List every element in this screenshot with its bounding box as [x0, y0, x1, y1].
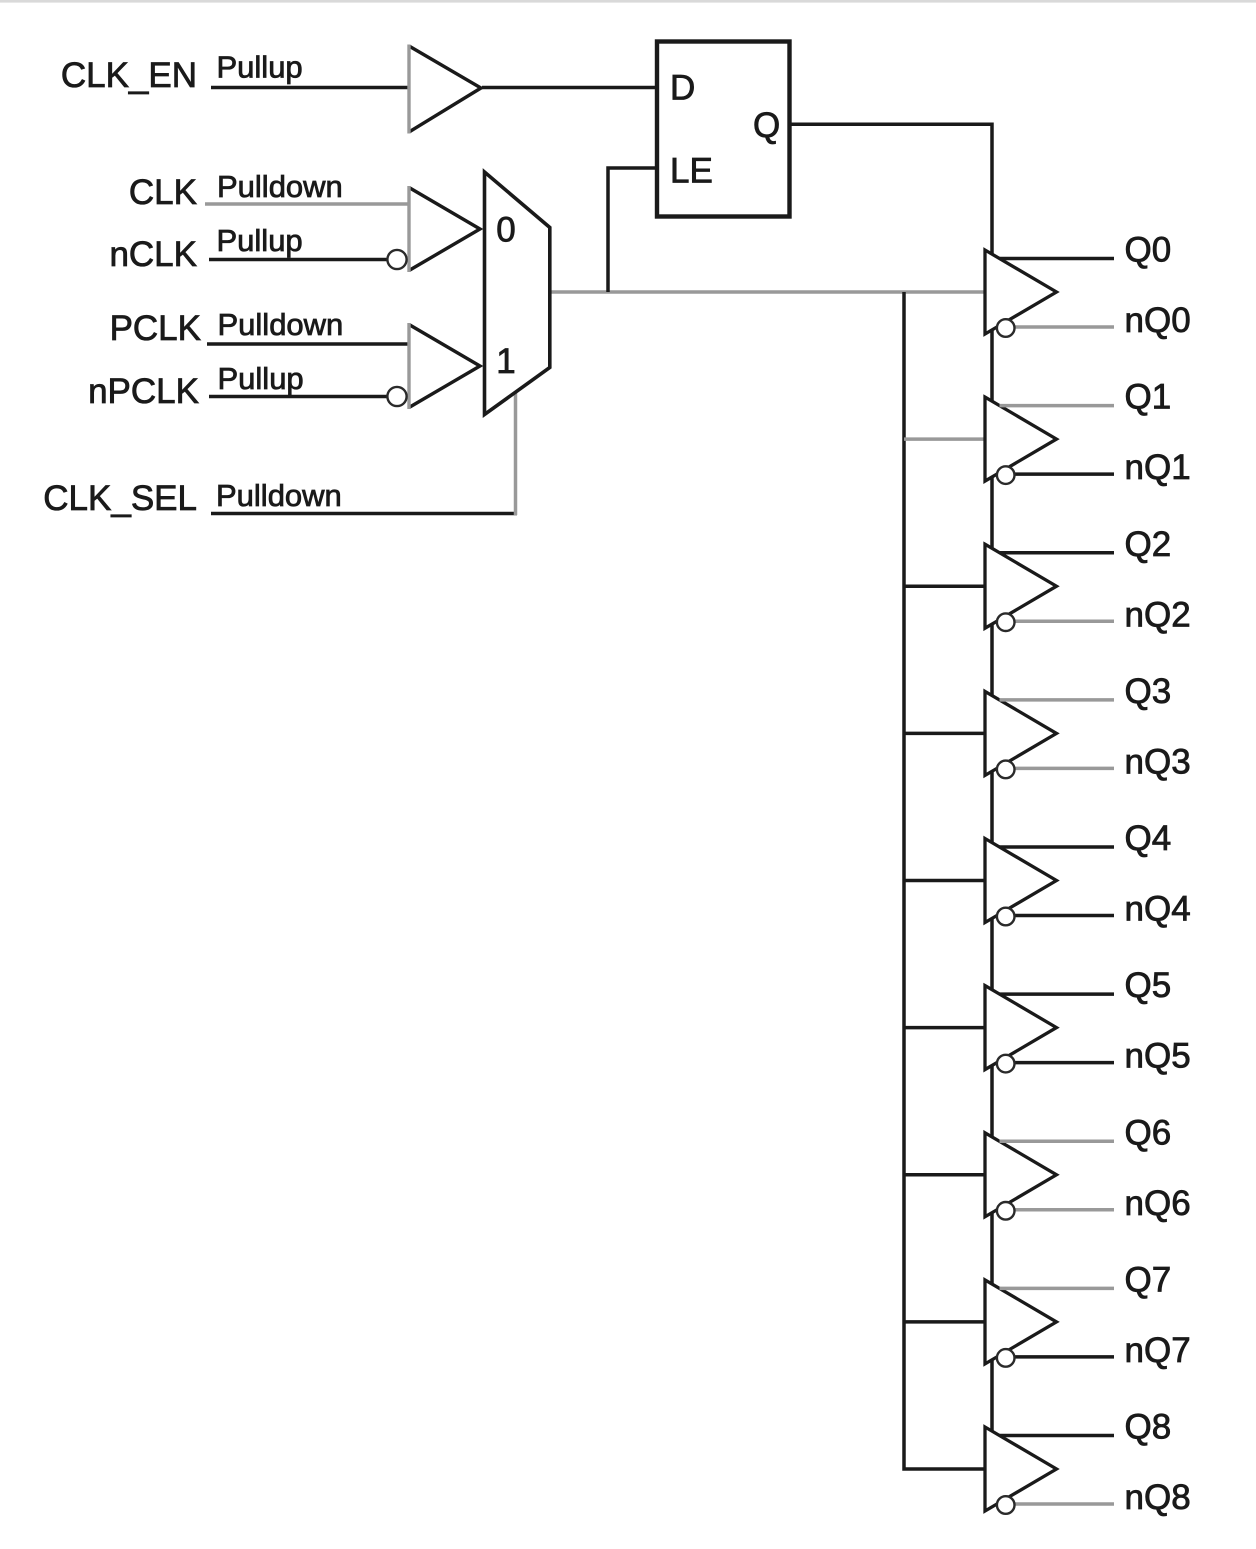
- svg-text:PCLK: PCLK: [110, 309, 201, 348]
- svg-text:Pulldown: Pulldown: [218, 307, 344, 342]
- svg-text:1: 1: [496, 342, 515, 381]
- svg-text:nQ2: nQ2: [1125, 595, 1191, 634]
- svg-text:nQ6: nQ6: [1125, 1184, 1191, 1223]
- svg-text:nQ0: nQ0: [1125, 301, 1191, 340]
- svg-text:nPCLK: nPCLK: [88, 372, 199, 411]
- svg-text:nQ5: nQ5: [1125, 1037, 1191, 1076]
- svg-text:0: 0: [496, 211, 515, 250]
- svg-text:Q4: Q4: [1125, 819, 1172, 858]
- svg-text:Q5: Q5: [1125, 966, 1172, 1005]
- svg-text:Pullup: Pullup: [217, 223, 303, 258]
- svg-text:nQ4: nQ4: [1125, 890, 1191, 929]
- svg-text:Pullup: Pullup: [217, 50, 303, 85]
- svg-text:Q8: Q8: [1125, 1408, 1172, 1447]
- svg-text:LE: LE: [670, 151, 713, 190]
- svg-text:Q6: Q6: [1125, 1113, 1172, 1152]
- svg-text:Q: Q: [753, 106, 780, 145]
- svg-text:Q3: Q3: [1125, 672, 1172, 711]
- svg-text:nQ8: nQ8: [1125, 1478, 1191, 1517]
- svg-text:Q1: Q1: [1125, 378, 1172, 417]
- svg-text:Q0: Q0: [1125, 231, 1172, 270]
- svg-text:D: D: [670, 69, 695, 108]
- svg-text:Pullup: Pullup: [218, 361, 304, 396]
- svg-text:CLK_EN: CLK_EN: [61, 56, 197, 95]
- svg-text:nQ7: nQ7: [1125, 1331, 1191, 1370]
- svg-text:Q2: Q2: [1125, 525, 1172, 564]
- svg-text:CLK_SEL: CLK_SEL: [43, 479, 197, 518]
- svg-text:nCLK: nCLK: [109, 235, 197, 274]
- svg-text:nQ1: nQ1: [1125, 448, 1191, 487]
- svg-text:Pulldown: Pulldown: [217, 169, 343, 204]
- svg-text:Pulldown: Pulldown: [216, 478, 342, 513]
- svg-text:Q7: Q7: [1125, 1260, 1172, 1299]
- svg-text:CLK: CLK: [129, 173, 197, 212]
- svg-text:nQ3: nQ3: [1125, 742, 1191, 781]
